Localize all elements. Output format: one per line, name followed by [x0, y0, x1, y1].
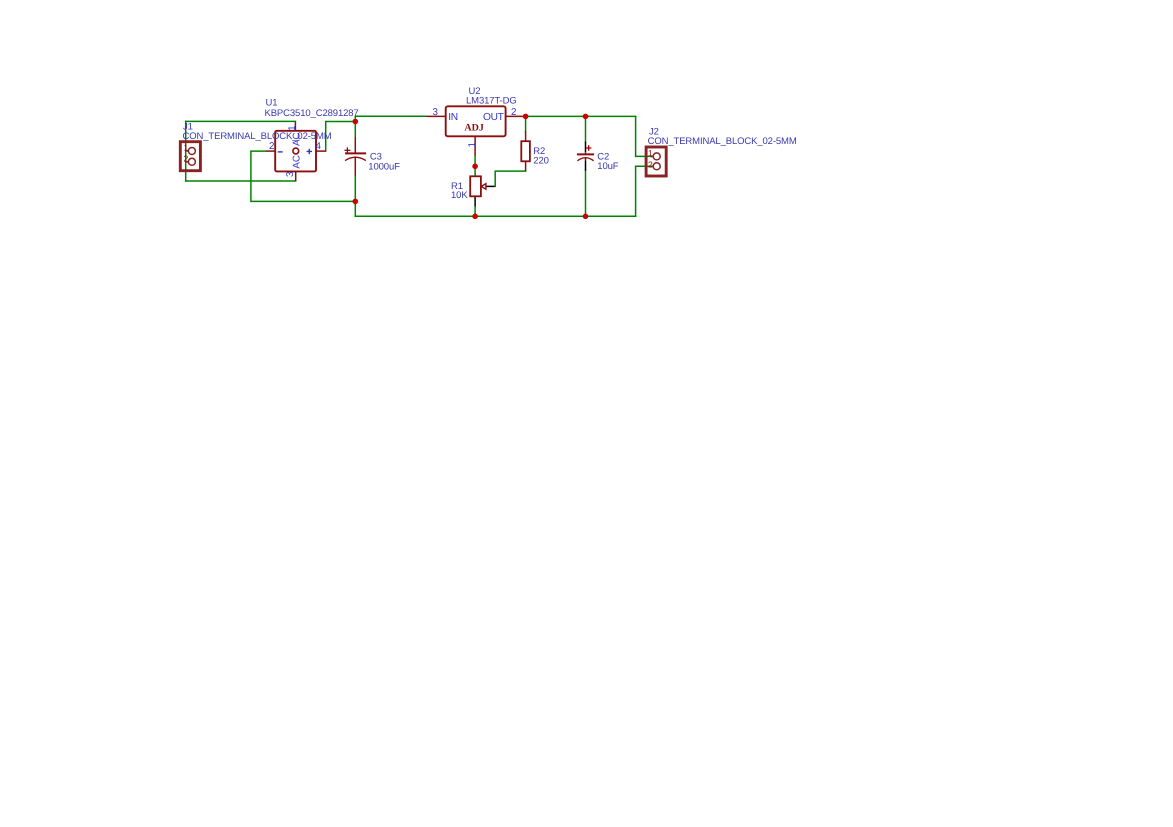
- svg-text:IN: IN: [448, 112, 458, 123]
- svg-text:10uF: 10uF: [597, 161, 618, 172]
- svg-text:1: 1: [467, 142, 478, 147]
- svg-text:OUT: OUT: [483, 112, 504, 123]
- svg-text:AC: AC: [291, 132, 302, 146]
- svg-text:1000uF: 1000uF: [368, 161, 400, 172]
- svg-text:4: 4: [316, 141, 322, 152]
- svg-text:1: 1: [287, 125, 298, 130]
- svg-text:10K: 10K: [451, 190, 468, 201]
- svg-text:220: 220: [533, 155, 549, 166]
- svg-text:3: 3: [433, 107, 439, 118]
- svg-text:2: 2: [511, 107, 516, 118]
- svg-text:CON_TERMINAL_BLOCK_02-5MM: CON_TERMINAL_BLOCK_02-5MM: [648, 136, 797, 147]
- svg-text:2: 2: [648, 159, 653, 169]
- svg-text:3: 3: [285, 171, 296, 177]
- svg-text:2: 2: [269, 141, 274, 152]
- svg-text:LM317T-DG: LM317T-DG: [466, 95, 517, 106]
- svg-text:KBPC3510_C2891287: KBPC3510_C2891287: [265, 108, 359, 119]
- svg-text:CON_TERMINAL_BLOCK_02-5MM: CON_TERMINAL_BLOCK_02-5MM: [183, 131, 332, 142]
- svg-text:1: 1: [184, 143, 189, 153]
- svg-text:AC: AC: [291, 155, 302, 169]
- svg-text:1: 1: [648, 148, 653, 158]
- svg-text:2: 2: [184, 154, 189, 164]
